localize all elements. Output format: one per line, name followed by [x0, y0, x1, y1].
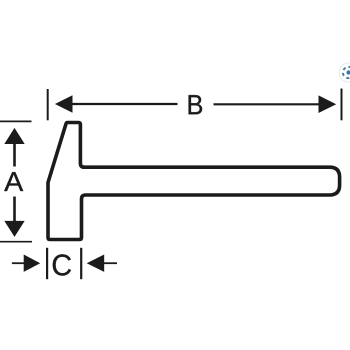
dimension C left extension tick — [46, 248, 48, 279]
label A — [4, 172, 23, 191]
dimension B line left segment — [72, 103, 178, 105]
watermark icon circle — [339, 63, 350, 82]
dimension B left extension tick — [47, 89, 49, 120]
label C — [53, 254, 71, 275]
label B — [189, 95, 202, 114]
dimension A down arrowhead — [4, 221, 24, 237]
dimension A up arrowhead — [4, 128, 24, 144]
dimension A lower stem — [13, 197, 16, 222]
dimension B line right segment — [214, 103, 319, 105]
dimension A upper stem — [13, 143, 16, 167]
watermark icon dashed ring — [341, 65, 350, 79]
dimension A top extension tick — [0, 120, 32, 122]
dimension C right lead line — [104, 262, 117, 264]
dimension C left arrowhead — [24, 255, 41, 272]
dimension B left arrowhead — [55, 95, 73, 113]
dimension C right extension tick — [80, 248, 82, 279]
watermark icon center dot — [346, 70, 350, 74]
dimension B right arrowhead — [319, 95, 337, 113]
dimension A bottom extension tick — [0, 241, 32, 243]
dimension C left lead line — [12, 262, 24, 264]
hammer outline — [48, 123, 340, 240]
dimension B right extension tick — [341, 89, 343, 121]
dimension C right arrowhead — [87, 255, 105, 272]
